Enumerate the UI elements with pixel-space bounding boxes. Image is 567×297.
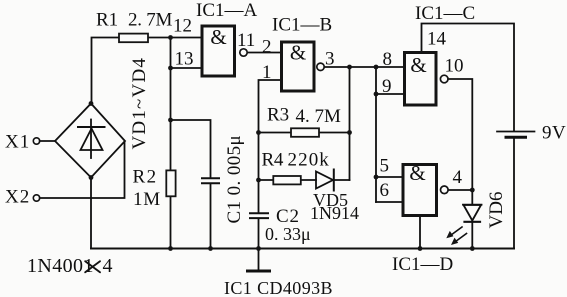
svg-text:12: 12 bbox=[173, 16, 192, 37]
svg-text:VD1~VD4: VD1~VD4 bbox=[129, 57, 150, 150]
svg-text:4: 4 bbox=[103, 255, 113, 277]
svg-text:X2: X2 bbox=[5, 187, 30, 208]
svg-text:4. 7M: 4. 7M bbox=[296, 106, 342, 127]
svg-text:X1: X1 bbox=[5, 132, 30, 153]
svg-text:&: & bbox=[409, 161, 425, 185]
svg-text:VD6: VD6 bbox=[486, 192, 507, 229]
svg-text:IC1—D: IC1—D bbox=[392, 254, 453, 275]
svg-text:R4: R4 bbox=[262, 150, 284, 171]
svg-text:&: & bbox=[410, 53, 426, 77]
svg-text:11: 11 bbox=[237, 30, 255, 51]
svg-text:R2: R2 bbox=[133, 167, 158, 188]
svg-text:0. 33μ: 0. 33μ bbox=[265, 224, 311, 244]
svg-text:4: 4 bbox=[453, 167, 463, 188]
svg-text:IC1 CD4093B: IC1 CD4093B bbox=[224, 278, 333, 297]
svg-text:220k: 220k bbox=[288, 150, 330, 171]
svg-text:2: 2 bbox=[262, 37, 272, 58]
svg-text:IC1—A: IC1—A bbox=[196, 0, 258, 21]
svg-text:1N914: 1N914 bbox=[310, 203, 359, 223]
svg-text:1: 1 bbox=[262, 62, 272, 83]
svg-text:R3: R3 bbox=[267, 105, 289, 126]
svg-text:5: 5 bbox=[380, 156, 390, 177]
svg-text:13: 13 bbox=[175, 49, 194, 70]
svg-text:9: 9 bbox=[382, 76, 392, 97]
svg-text:C1 0. 005μ: C1 0. 005μ bbox=[224, 135, 245, 224]
svg-text:3: 3 bbox=[325, 49, 335, 70]
svg-text:2. 7M: 2. 7M bbox=[128, 10, 173, 31]
svg-text:10: 10 bbox=[445, 56, 464, 77]
svg-text:&: & bbox=[210, 25, 226, 49]
svg-text:9V: 9V bbox=[542, 123, 566, 144]
svg-text:1M: 1M bbox=[133, 189, 161, 210]
svg-text:8: 8 bbox=[383, 49, 393, 70]
svg-text:1N4001: 1N4001 bbox=[27, 255, 94, 277]
svg-text:14: 14 bbox=[427, 29, 447, 50]
svg-text:&: & bbox=[290, 41, 306, 65]
svg-text:R1: R1 bbox=[96, 10, 118, 31]
svg-text:IC1—B: IC1—B bbox=[272, 15, 332, 36]
svg-text:IC1—C: IC1—C bbox=[415, 3, 475, 24]
svg-text:6: 6 bbox=[380, 180, 390, 201]
